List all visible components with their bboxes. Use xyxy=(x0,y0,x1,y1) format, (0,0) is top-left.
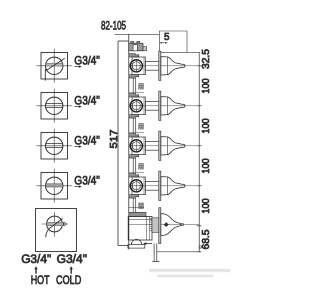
svg-text:G3/4": G3/4" xyxy=(21,252,51,266)
svg-text:100: 100 xyxy=(201,118,212,134)
top end cap assembly xyxy=(129,41,147,51)
valve square 4 xyxy=(37,169,72,203)
rough-in box top xyxy=(118,40,129,42)
svg-text:HOT: HOT xyxy=(31,273,50,287)
G3/4 label 2 xyxy=(74,94,100,108)
svg-text:517: 517 xyxy=(109,129,120,148)
pipe between valve 4 and thermostat xyxy=(129,198,144,212)
faint watermark xyxy=(149,269,230,278)
svg-text:82-105: 82-105 xyxy=(101,18,126,32)
pipe between valve 2-3 xyxy=(129,118,144,133)
wall front face line xyxy=(128,34,130,249)
svg-text:G3/4": G3/4" xyxy=(74,174,100,188)
svg-text:G3/4": G3/4" xyxy=(74,94,100,108)
valve square 3 xyxy=(37,129,72,163)
dimension line right xyxy=(197,52,202,252)
thermostatic mixer square (large, bottom) xyxy=(36,209,77,252)
svg-text:5: 5 xyxy=(164,32,170,43)
dimension 5 callout box xyxy=(159,31,187,52)
thread ticks xyxy=(150,218,154,220)
G3/4 label 4 xyxy=(74,174,100,188)
hot inlet arrow xyxy=(34,266,37,274)
svg-text:COLD: COLD xyxy=(56,273,81,287)
down pipe xyxy=(153,244,155,262)
svg-text:100: 100 xyxy=(201,198,212,214)
pipe between valve 3-4 xyxy=(129,158,144,173)
G3/4 label 3 xyxy=(74,134,100,148)
svg-text:100: 100 xyxy=(201,78,212,94)
svg-text:68.5: 68.5 xyxy=(201,229,212,249)
rough-in box left edge xyxy=(117,41,119,246)
svg-text:G3/4": G3/4" xyxy=(57,252,87,266)
svg-text:100: 100 xyxy=(201,158,212,174)
dome + base under body xyxy=(131,239,141,244)
rough-in box bottom xyxy=(118,245,128,247)
top reference line xyxy=(159,51,199,53)
valve square 2 xyxy=(37,89,72,123)
cold inlet arrow xyxy=(70,266,73,274)
svg-text:G3/4": G3/4" xyxy=(74,134,100,148)
pipe between valve 1-2 xyxy=(129,78,144,93)
small fitting arrow left xyxy=(145,243,153,245)
svg-text:32.5: 32.5 xyxy=(201,49,212,69)
G3/4 label 1 xyxy=(74,54,100,68)
bottom inlet labels xyxy=(21,252,87,287)
valve square 1 xyxy=(37,49,72,83)
bottom reference line xyxy=(157,251,200,253)
thermostat handle xyxy=(161,214,181,236)
svg-text:G3/4": G3/4" xyxy=(74,54,100,68)
dimension 82-105 xyxy=(101,18,159,34)
